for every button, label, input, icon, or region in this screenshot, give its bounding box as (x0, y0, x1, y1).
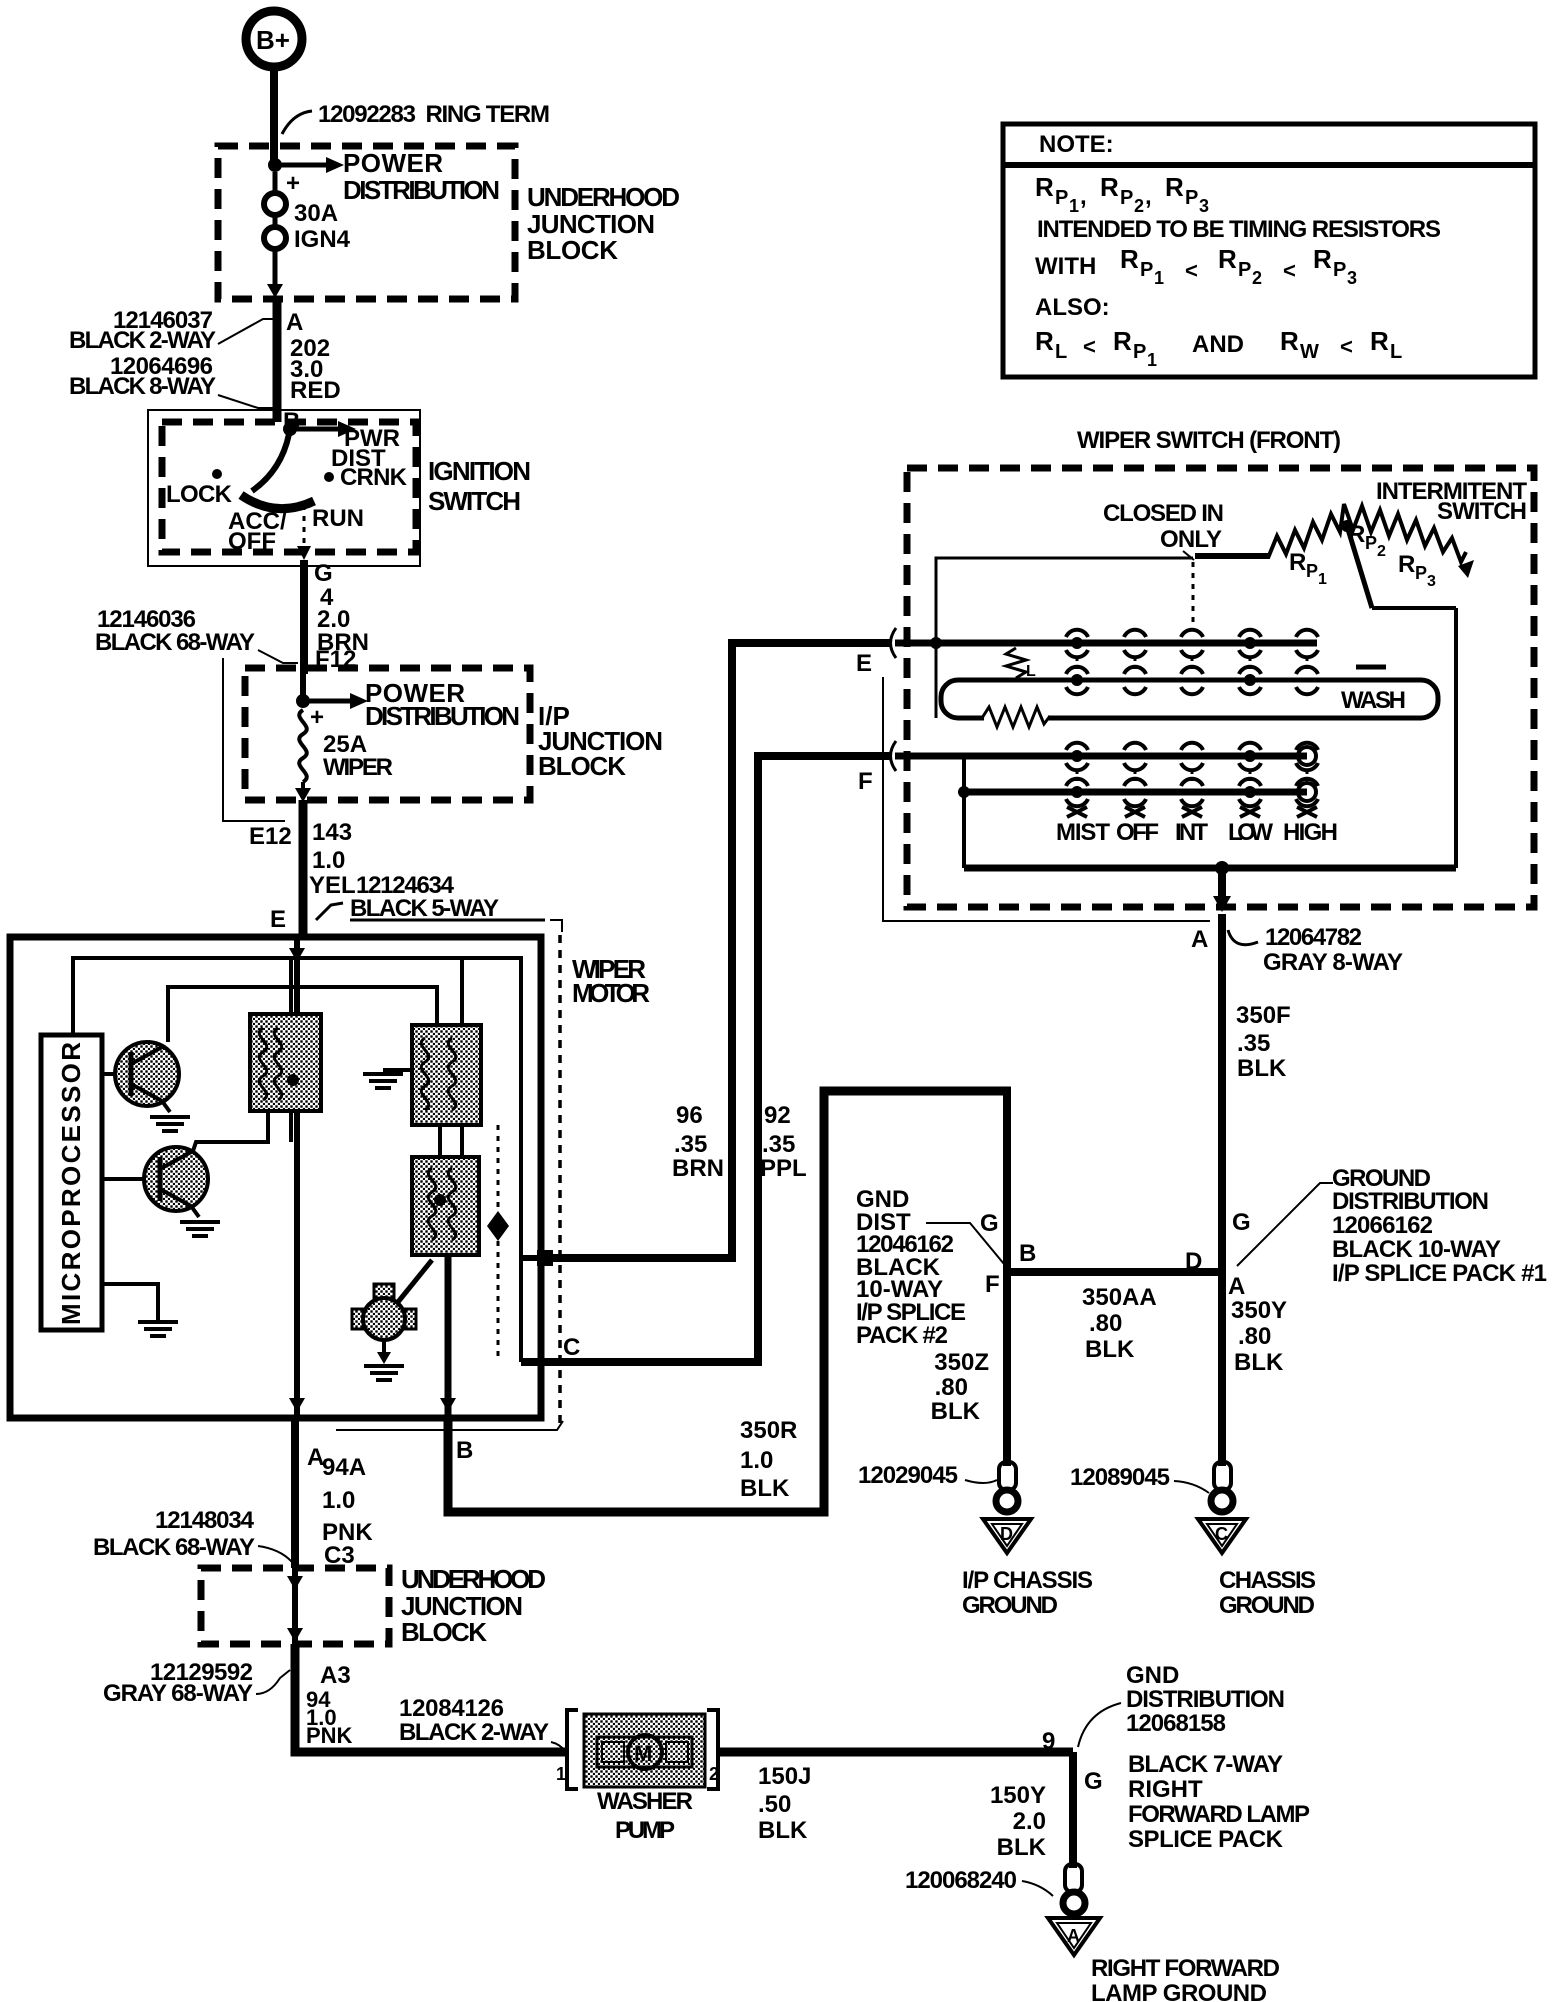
svg-text:350AA: 350AA (1082, 1284, 1157, 1311)
ring terminal 12029045 (858, 1462, 1018, 1512)
svg-text:BLACK 5-WAY: BLACK 5-WAY (350, 895, 499, 922)
fuse 25A WIPER (295, 704, 393, 802)
relay contact K3 (412, 1157, 479, 1255)
svg-text:SWITCH: SWITCH (428, 486, 521, 516)
svg-text:PPL: PPL (760, 1155, 807, 1182)
svg-text:BLOCK: BLOCK (538, 751, 626, 781)
bottom rail (964, 865, 1456, 872)
rail C (964, 789, 1307, 796)
label: gnd dist splice pack #2 (856, 1186, 1004, 1349)
svg-text:RUN: RUN (312, 505, 364, 532)
svg-text:BLACK 7-WAY: BLACK 7-WAY (1128, 1751, 1283, 1778)
wire to connector A (1191, 868, 1231, 1272)
svg-text:1: 1 (556, 1764, 566, 1784)
wire 202 3.0 RED (273, 299, 282, 422)
svg-text:150J: 150J (758, 1763, 811, 1790)
label: I/P junction block (538, 701, 663, 781)
svg-text:CHASSIS: CHASSIS (1219, 1567, 1316, 1594)
svg-text:1: 1 (1154, 268, 1164, 288)
svg-text:HIGH: HIGH (1283, 819, 1338, 846)
fuse 30A IGN4 (264, 170, 351, 298)
rail E (895, 640, 1317, 647)
label: underhood junction block (527, 182, 680, 265)
svg-text:B: B (1019, 1240, 1036, 1267)
svg-text:G: G (1084, 1768, 1103, 1795)
svg-text:GRAY 68-WAY: GRAY 68-WAY (103, 1680, 253, 1707)
svg-text:DISTRIBUTION: DISTRIBUTION (365, 701, 520, 731)
wire B+ down (270, 67, 278, 163)
svg-text:W: W (1300, 341, 1319, 363)
svg-text:BLK: BLK (1085, 1336, 1135, 1363)
svg-text:AND: AND (1192, 331, 1244, 358)
relay coil K2 (412, 958, 481, 1157)
svg-text:G: G (314, 560, 333, 587)
svg-text:<: < (1185, 258, 1198, 283)
svg-text:P: P (1055, 187, 1068, 209)
svg-text:BLACK 8-WAY: BLACK 8-WAY (69, 373, 216, 400)
svg-text:INTENDED TO BE TIMING RESISTOR: INTENDED TO BE TIMING RESISTORS (1037, 216, 1441, 243)
svg-text:OFF: OFF (1116, 819, 1159, 846)
svg-text:R: R (1370, 326, 1389, 356)
svg-text:P: P (1140, 259, 1153, 281)
label: wiper motor (572, 954, 650, 1008)
svg-text:.35: .35 (1237, 1030, 1270, 1057)
svg-text:1: 1 (1147, 350, 1157, 370)
svg-text:GROUND: GROUND (962, 1592, 1058, 1619)
switch rotor (252, 434, 289, 491)
rail F (895, 753, 1307, 760)
contact dots LOCK CRNK (212, 469, 222, 479)
svg-text:DISTRIBUTION: DISTRIBUTION (343, 175, 500, 205)
svg-text:C: C (1215, 1524, 1228, 1544)
svg-text:FORWARD LAMP: FORWARD LAMP (1128, 1801, 1310, 1828)
svg-text:DISTRIBUTION: DISTRIBUTION (1332, 1188, 1489, 1215)
transistor Q2 (102, 1147, 208, 1217)
svg-text:R: R (1100, 172, 1119, 202)
switch contacts (1066, 630, 1318, 817)
svg-text:1.0: 1.0 (322, 1487, 355, 1514)
diode D1 (487, 1125, 509, 1360)
wash loop (941, 680, 1438, 718)
svg-text:BLOCK: BLOCK (401, 1617, 487, 1647)
svg-text:DISTRIBUTION: DISTRIBUTION (1126, 1686, 1285, 1713)
svg-text:OFF: OFF (228, 528, 276, 555)
svg-text:ALSO:: ALSO: (1035, 294, 1110, 321)
svg-text:IGN4: IGN4 (294, 226, 351, 253)
svg-text:A: A (1067, 1926, 1080, 1946)
svg-text:PUMP: PUMP (615, 1817, 675, 1844)
ground C: chassis ground (1198, 1519, 1246, 1553)
connector label 12084126 BLACK 2-WAY (399, 1695, 566, 1752)
wire 143 1.0 YEL (299, 800, 308, 937)
svg-text:B: B (456, 1437, 473, 1464)
svg-text:P: P (1365, 533, 1377, 553)
ring terminal 12089045 (1070, 1462, 1233, 1512)
svg-text:SPLICE PACK: SPLICE PACK (1128, 1826, 1284, 1853)
ground (Q1) (150, 1117, 190, 1131)
wire 94 1.0 PNK (306, 1687, 353, 1748)
svg-text:CRNK: CRNK (340, 464, 408, 491)
svg-text:C: C (563, 1334, 580, 1361)
svg-text:.80: .80 (1238, 1323, 1271, 1350)
svg-text:RIGHT: RIGHT (1128, 1776, 1203, 1803)
svg-text:MICROPROCESSOR: MICROPROCESSOR (56, 1042, 86, 1325)
label: ground distribution splice pack #1 (1237, 1165, 1547, 1287)
svg-text:R: R (1035, 326, 1054, 356)
main feed wire through motor (294, 940, 300, 1415)
wire 150J .50 BLK (718, 1748, 1073, 1757)
svg-text:I/P CHASSIS: I/P CHASSIS (962, 1567, 1093, 1594)
svg-text:BLACK 2-WAY: BLACK 2-WAY (69, 327, 216, 354)
svg-text:M: M (634, 1741, 652, 1766)
svg-text:BLK: BLK (1237, 1055, 1287, 1082)
svg-text:,: , (1145, 183, 1152, 210)
I/P junction block connector outline (223, 658, 285, 821)
connector label 12146036 (95, 606, 298, 663)
svg-text:12092283 RING TERM: 12092283 RING TERM (318, 101, 550, 128)
svg-text:1.0: 1.0 (740, 1447, 773, 1474)
Q2 collector wire (193, 1113, 268, 1151)
svg-text:BLACK 68-WAY: BLACK 68-WAY (93, 1534, 255, 1561)
resistor RP1 RP2 RP3 zigzag (1268, 504, 1466, 562)
wire 350Y .80 BLK (1231, 1297, 1287, 1376)
svg-text:BRN: BRN (672, 1155, 724, 1182)
wire 4 2.0 BRN (300, 560, 308, 674)
svg-text:.50: .50 (758, 1791, 791, 1818)
svg-text:YEL: YEL (309, 872, 356, 899)
svg-text:GROUND: GROUND (1219, 1592, 1315, 1619)
svg-text:UNDERHOOD: UNDERHOOD (401, 1564, 546, 1594)
svg-text:R: R (1165, 172, 1184, 202)
wiper switch box (907, 468, 1534, 907)
ground D: I/P chassis ground (983, 1519, 1031, 1553)
ground (K2) (363, 1070, 412, 1088)
svg-text:L: L (1026, 663, 1036, 680)
svg-text:POWER: POWER (343, 148, 443, 178)
wire B exit inside motor (445, 1255, 452, 1418)
wire 150Y 2.0 BLK (1069, 1752, 1077, 1868)
svg-text:2: 2 (709, 1764, 719, 1784)
svg-text:.80: .80 (935, 1374, 968, 1401)
svg-text:MIST: MIST (1056, 819, 1110, 846)
svg-text:92: 92 (764, 1102, 791, 1129)
svg-text:2: 2 (1377, 543, 1386, 560)
svg-text:WASH: WASH (1341, 687, 1406, 714)
svg-text:PNK: PNK (306, 1723, 353, 1748)
closed-in-only feed (936, 558, 1193, 718)
svg-text:IGNITION: IGNITION (428, 456, 531, 486)
connector label 12148034 (93, 1507, 292, 1562)
svg-text:.80: .80 (1089, 1310, 1122, 1337)
svg-text:BLACK 2-WAY: BLACK 2-WAY (399, 1719, 549, 1746)
run contact (297, 505, 311, 560)
svg-text:RED: RED (290, 377, 341, 404)
svg-text:12064782: 12064782 (1265, 924, 1362, 951)
wire 350Z .80 BLK (931, 1349, 989, 1425)
svg-text:RIGHT FORWARD: RIGHT FORWARD (1091, 1955, 1280, 1982)
ground (motor) (364, 1340, 404, 1380)
wire 350AA .80 BLK (1082, 1284, 1157, 1363)
svg-text:120068240: 120068240 (905, 1867, 1017, 1894)
svg-text:94A: 94A (322, 1454, 366, 1481)
switch arc ACC/OFF-RUN (241, 495, 314, 509)
connector labels 12146037 / 12064696 (69, 307, 276, 408)
svg-text:BLACK 68-WAY: BLACK 68-WAY (95, 629, 255, 656)
wiper motor connector dashed outline (350, 919, 545, 922)
svg-text:BLK: BLK (740, 1475, 790, 1502)
svg-text:R: R (1289, 549, 1306, 576)
ring terminal label 12092283 (282, 101, 550, 134)
svg-text:A: A (1228, 1273, 1245, 1300)
svg-text:BLK: BLK (1234, 1349, 1284, 1376)
svg-text:R: R (1313, 244, 1332, 274)
svg-text:BLK: BLK (997, 1834, 1047, 1861)
connector label 12129592 GRAY 68-WAY (103, 1659, 290, 1707)
note box (1003, 124, 1535, 377)
svg-text:P: P (1133, 341, 1146, 363)
closed contact dots (1071, 637, 1256, 798)
svg-text:I/P SPLICE PACK #1: I/P SPLICE PACK #1 (1332, 1260, 1547, 1287)
svg-text:GND: GND (1126, 1662, 1179, 1689)
svg-text:A: A (286, 309, 303, 336)
svg-text:WASHER: WASHER (597, 1788, 693, 1815)
svg-text:+: + (286, 170, 300, 197)
svg-text:3: 3 (1347, 268, 1357, 288)
svg-text:WIPER: WIPER (323, 754, 393, 781)
svg-text:2: 2 (1134, 196, 1144, 216)
node F (858, 741, 896, 795)
svg-text:<: < (1283, 258, 1296, 283)
underhood junction block (bottom) (201, 1568, 389, 1644)
svg-text:D: D (1185, 1248, 1202, 1275)
wire 92 .35 PPL (521, 756, 890, 1362)
svg-text:R: R (1113, 326, 1132, 356)
svg-text:12068158: 12068158 (1126, 1710, 1226, 1737)
ground (Q2) (180, 1222, 220, 1236)
svg-text:WIPER SWITCH (FRONT): WIPER SWITCH (FRONT) (1077, 427, 1341, 454)
svg-text:.35: .35 (762, 1131, 795, 1158)
battery terminal B+ (246, 11, 302, 67)
svg-text:NOTE:: NOTE: (1039, 131, 1114, 158)
svg-text:96: 96 (676, 1102, 703, 1129)
node E (856, 628, 896, 677)
svg-text:F: F (858, 768, 873, 795)
svg-text:G: G (1232, 1209, 1251, 1236)
svg-text:1: 1 (1069, 196, 1079, 216)
svg-text:350Z: 350Z (934, 1349, 989, 1376)
svg-text:WITH: WITH (1035, 253, 1096, 280)
svg-text:L: L (1055, 341, 1067, 363)
label: ignition switch (428, 456, 531, 516)
svg-text:3: 3 (1199, 196, 1209, 216)
svg-text:R: R (1120, 244, 1139, 274)
wire 94A 1.0 PNK (291, 1418, 299, 1568)
svg-text:F: F (985, 1271, 1000, 1298)
svg-text:BLOCK: BLOCK (527, 235, 618, 265)
svg-text:350F: 350F (1236, 1002, 1291, 1029)
wire 350F .35 BLK (1236, 1002, 1291, 1082)
svg-text:E: E (270, 906, 286, 933)
ignition switch connector outline (148, 410, 420, 566)
svg-text:1.0: 1.0 (312, 847, 345, 874)
svg-text:,: , (1080, 183, 1087, 210)
label: underhood junction block (bottom) (401, 1564, 546, 1647)
svg-text:P: P (1185, 187, 1198, 209)
svg-text:350R: 350R (740, 1417, 797, 1444)
svg-text:E12: E12 (249, 823, 292, 850)
svg-text:L: L (1390, 341, 1402, 363)
svg-text:2: 2 (1252, 268, 1262, 288)
svg-text:G: G (980, 1210, 999, 1237)
washer pump (567, 1710, 718, 1789)
svg-text:E: E (856, 650, 872, 677)
svg-text:1: 1 (1318, 571, 1327, 588)
wire 350R 1.0 BLK (448, 1091, 1011, 1512)
ignition switch (162, 422, 416, 552)
svg-text:LOW: LOW (1228, 819, 1273, 846)
microprocessor U1 (41, 1035, 102, 1330)
note line WITH (1035, 244, 1357, 288)
svg-text:BLACK 10-WAY: BLACK 10-WAY (1332, 1236, 1501, 1263)
microprocessor ground leg (102, 1284, 178, 1336)
connector label 12064782 GRAY 8-WAY (1228, 924, 1403, 976)
note line RL (1035, 326, 1402, 370)
wiper arm (1341, 520, 1456, 868)
transistor Q1 (102, 1042, 179, 1112)
note line RP1 RP2 RP3 (1035, 172, 1209, 216)
connector label 12124634 BLACK 5-WAY (316, 872, 499, 922)
svg-text:B+: B+ (256, 25, 290, 55)
wash contact (1356, 665, 1386, 670)
svg-text:LOCK: LOCK (166, 481, 233, 508)
svg-text:INT: INT (1175, 819, 1208, 846)
svg-text:ONLY: ONLY (1160, 526, 1222, 553)
svg-text:BLK: BLK (931, 1398, 981, 1425)
svg-text:12066162: 12066162 (1332, 1212, 1433, 1239)
resistor RL (1006, 648, 1036, 680)
svg-text:UNDERHOOD: UNDERHOOD (527, 182, 680, 212)
svg-text:+: + (310, 704, 324, 731)
svg-text:P: P (1306, 561, 1318, 581)
svg-text:12148034: 12148034 (155, 1507, 255, 1534)
svg-text:.35: .35 (674, 1131, 707, 1158)
svg-text:A3: A3 (320, 1662, 351, 1689)
I/P junction block (245, 668, 530, 800)
svg-text:P: P (1415, 563, 1427, 583)
ground distribution junctions (1003, 1087, 1011, 1466)
label: washer pump (597, 1788, 693, 1844)
svg-text:3: 3 (1427, 573, 1436, 590)
labels MIST OFF INT LOW HIGH (1056, 819, 1338, 846)
labels RP1 RP2 RP3 (1289, 549, 1327, 588)
relay coil K1 (250, 958, 321, 1142)
svg-text:A: A (1191, 926, 1208, 953)
svg-text:350Y: 350Y (1231, 1297, 1287, 1324)
svg-text:MOTOR: MOTOR (572, 978, 650, 1008)
svg-text:P: P (1238, 259, 1251, 281)
svg-text:12089045: 12089045 (1070, 1464, 1170, 1491)
connector bracket (883, 677, 1210, 921)
wire 96 .35 BRN (545, 643, 890, 1258)
svg-text:PACK #2: PACK #2 (856, 1322, 948, 1349)
ring terminal 120068240 (905, 1864, 1085, 1914)
motor internal top rails (73, 958, 521, 1362)
svg-text:<: < (1340, 334, 1353, 359)
svg-text:12084126: 12084126 (399, 1695, 504, 1722)
pin to wire 96 (521, 1255, 537, 1261)
svg-text:R: R (1035, 172, 1054, 202)
label: gnd distribution 12068158 (1078, 1662, 1285, 1747)
svg-text:9: 9 (1042, 1728, 1055, 1755)
node: power distribution tap (268, 148, 500, 205)
svg-text:CLOSED IN: CLOSED IN (1103, 500, 1224, 527)
wiper motor box (10, 937, 541, 1418)
svg-text:BLK: BLK (758, 1817, 808, 1844)
motor M armature (352, 1260, 432, 1340)
underhood junction block (top) (218, 146, 515, 299)
svg-text:SWITCH: SWITCH (1437, 498, 1527, 525)
svg-text:<: < (1083, 334, 1096, 359)
svg-text:143: 143 (312, 819, 352, 846)
svg-text:12029045: 12029045 (858, 1462, 958, 1489)
svg-text:30A: 30A (294, 200, 338, 227)
svg-text:R: R (1280, 326, 1299, 356)
svg-text:2.0: 2.0 (1013, 1808, 1046, 1835)
svg-text:R: R (1218, 244, 1237, 274)
ground: right forward lamp (1048, 1918, 1100, 1955)
svg-text:D: D (1000, 1524, 1013, 1544)
svg-text:P: P (1120, 187, 1133, 209)
label: black 7-way splice pack (1128, 1751, 1310, 1853)
svg-text:LAMP GROUND: LAMP GROUND (1091, 1980, 1267, 2002)
resistor RW (982, 707, 1050, 727)
svg-text:GRAY 8-WAY: GRAY 8-WAY (1263, 949, 1403, 976)
svg-text:R: R (1398, 551, 1415, 578)
svg-text:150Y: 150Y (990, 1782, 1046, 1809)
svg-text:P: P (1333, 259, 1346, 281)
